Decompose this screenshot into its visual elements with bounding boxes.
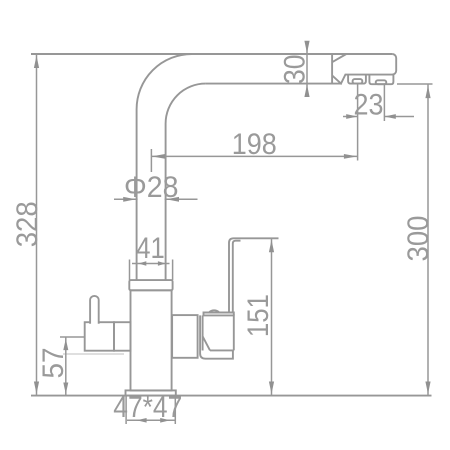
arrow 151 bottom <box>269 382 274 395</box>
collar at body top <box>129 280 172 290</box>
dim 23 line left <box>343 116 358 118</box>
arrow 41 right <box>158 261 166 265</box>
side spray lip <box>206 350 233 358</box>
spout head left joint line <box>331 54 333 84</box>
base flange <box>126 390 176 395</box>
handle connector <box>114 322 131 351</box>
dim phi28 line left <box>114 198 138 200</box>
spout head outline <box>332 54 396 84</box>
wire inner bend of spout <box>166 84 206 281</box>
dim 23 extension left / 198 right extension <box>357 84 359 161</box>
dim 300 line <box>427 84 429 395</box>
aerator tab 1 <box>348 75 366 84</box>
svg-text:23: 23 <box>354 89 384 122</box>
arrow 328 top <box>34 56 39 69</box>
svg-text:41: 41 <box>136 232 165 265</box>
arrow 47 right <box>160 418 170 423</box>
arrow 198 right <box>344 154 358 159</box>
dim 23 line right <box>384 116 414 118</box>
aerator tab 2 <box>369 75 393 85</box>
arrow 47 left <box>137 418 147 423</box>
arrow 198 left <box>152 154 166 159</box>
dim 47 extension right <box>174 397 176 425</box>
side spray diagonal <box>203 336 210 350</box>
arrow 23 left (points right) <box>346 114 358 119</box>
dim 198 line <box>151 155 357 157</box>
dim 47 extension left <box>125 397 127 425</box>
side spray head <box>203 315 234 350</box>
aerator insert 1 <box>353 79 363 84</box>
side spray neck left <box>200 315 205 358</box>
arrow 57 bottom <box>63 383 68 395</box>
wire outer bend of spout <box>137 54 192 280</box>
dim 41 line <box>132 263 170 265</box>
body column <box>131 290 172 390</box>
arrow 41 left <box>138 261 146 265</box>
arrow phi28 left (points right) <box>123 197 136 202</box>
dim phi28 line right <box>165 198 198 200</box>
wire top line (spout top / extension) <box>31 53 392 55</box>
side spray lip top <box>210 349 234 351</box>
svg-text:57: 57 <box>37 348 70 379</box>
spout head chamfer line <box>332 54 346 62</box>
svg-text:300: 300 <box>402 216 435 262</box>
arrow 328 bottom <box>34 382 39 395</box>
side spray dome button <box>209 310 219 312</box>
aerator insert 2 <box>376 80 387 84</box>
handle faint shadow line <box>63 353 124 355</box>
svg-text:47*47: 47*47 <box>113 391 182 424</box>
dim 47 line <box>127 419 175 421</box>
dim 151 line <box>271 238 273 395</box>
dim 57 top extension <box>60 336 85 338</box>
dim 41 extension left <box>129 260 131 281</box>
side spray neck right <box>202 315 204 350</box>
side spray top band <box>204 313 234 316</box>
filtered water channel outer <box>229 238 279 312</box>
arrow 300 top <box>425 86 430 99</box>
handle box <box>85 322 114 351</box>
side spray attachment <box>172 315 198 358</box>
countertop baseline <box>31 395 432 397</box>
filtered water channel inner <box>233 241 241 313</box>
arrow 300 bottom <box>425 382 430 395</box>
svg-text:198: 198 <box>232 128 277 161</box>
arrow 23 right (points left) <box>384 114 396 119</box>
dim 23 extension right <box>383 85 385 121</box>
arrow 30 top (points down) <box>304 41 309 54</box>
svg-text:151: 151 <box>242 294 275 337</box>
svg-text:Φ28: Φ28 <box>124 171 179 204</box>
arrow 57 top <box>63 339 68 351</box>
dim 198 left extension <box>150 149 152 172</box>
dim 300 top extension <box>397 83 433 85</box>
dim 328 line <box>36 54 38 396</box>
dim 30 line <box>306 42 308 96</box>
dim 41 extension right <box>172 260 174 281</box>
wire spout bottom line <box>206 83 341 85</box>
handle lever stick <box>90 296 99 324</box>
svg-text:30: 30 <box>279 55 312 85</box>
svg-text:328: 328 <box>11 201 44 247</box>
arrow 30 bottom (points up) <box>304 85 309 98</box>
arrow phi28 right (points left) <box>166 197 179 202</box>
arrow 151 top <box>269 240 274 253</box>
dim 57 line <box>65 337 67 395</box>
